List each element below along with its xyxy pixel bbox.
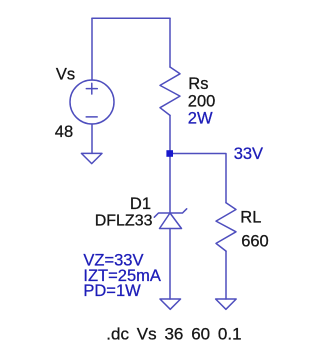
wire zener anode to ground — [169, 229, 171, 300]
svg-text:Rs: Rs — [188, 75, 208, 93]
svg-text:.dc Vs 36 60 0.1: .dc Vs 36 60 0.1 — [106, 325, 241, 344]
svg-text:660: 660 — [241, 233, 269, 251]
resistor Rs body — [160, 67, 180, 115]
svg-text:D1: D1 — [130, 195, 151, 213]
resistor RL body — [216, 203, 236, 251]
wire top rail horizontal — [92, 17, 170, 19]
ground under Vs — [81, 153, 102, 163]
svg-text:PD=1W: PD=1W — [83, 282, 141, 300]
wire node to RL branch — [170, 154, 226, 203]
wire RL to ground — [225, 251, 227, 299]
svg-text:RL: RL — [240, 208, 261, 226]
svg-text:48: 48 — [55, 123, 73, 141]
wire top rail to Rs — [169, 18, 171, 67]
svg-text:Vs: Vs — [56, 66, 75, 84]
wire Vs to ground — [91, 124, 93, 153]
svg-text:33V: 33V — [234, 145, 263, 163]
voltage source Vs symbol — [70, 80, 114, 124]
svg-text:DFLZ33: DFLZ33 — [95, 212, 153, 229]
node junction square (33V node) — [166, 150, 173, 157]
wire top-left vertical (Vs to top rail) — [91, 18, 93, 80]
zener diode D1 body — [154, 209, 186, 229]
wire Rs to node and zener cathode — [169, 115, 171, 213]
ground under RL — [216, 299, 237, 309]
svg-text:2W: 2W — [188, 110, 213, 128]
ground under zener D1 — [160, 299, 181, 309]
svg-text:200: 200 — [188, 92, 216, 110]
